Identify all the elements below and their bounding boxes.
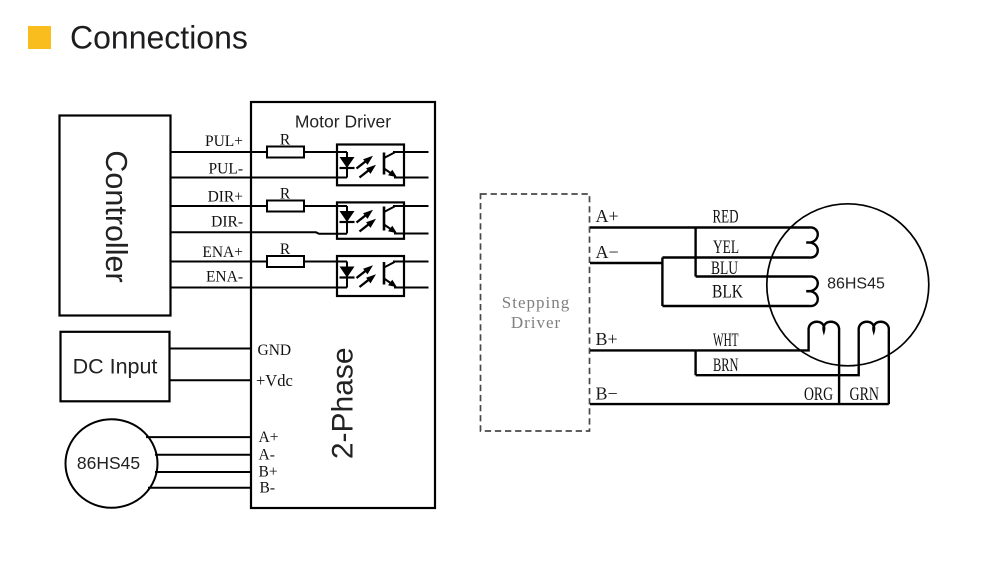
svg-text:DIR+: DIR+ <box>208 189 243 206</box>
svg-text:B−: B− <box>596 384 618 404</box>
controller box <box>60 116 171 316</box>
svg-text:86HS45: 86HS45 <box>77 453 140 473</box>
svg-text:R: R <box>280 132 291 149</box>
optocoupler (PUL) <box>337 145 429 186</box>
svg-text:Stepping: Stepping <box>502 293 570 312</box>
wire B- (left) <box>148 487 251 489</box>
svg-text:R: R <box>280 241 291 258</box>
wire ORG vertical <box>838 331 840 405</box>
svg-text:BRN: BRN <box>713 355 739 376</box>
wire +Vdc <box>170 379 252 381</box>
svg-text:A−: A− <box>596 242 619 262</box>
svg-text:YEL: YEL <box>713 237 739 258</box>
wire GRN vertical <box>888 331 890 405</box>
wire resistor to opto (PUL) <box>304 151 347 153</box>
svg-text:DIR-: DIR- <box>211 213 243 230</box>
svg-text:A+: A+ <box>259 429 279 446</box>
wire DIR+ <box>171 205 268 207</box>
svg-text:Controller: Controller <box>99 150 133 282</box>
svg-text:ENA+: ENA+ <box>202 244 243 261</box>
wire GND <box>170 348 252 350</box>
wire A+ (left) <box>146 436 251 438</box>
svg-text:2-Phase: 2-Phase <box>327 347 360 459</box>
wire A+ / RED <box>590 226 810 228</box>
svg-text:Connections: Connections <box>70 20 248 56</box>
wire DIR- (with jog) <box>171 232 348 234</box>
svg-text:ENA-: ENA- <box>206 268 243 285</box>
wire resistor to opto (DIR) <box>304 205 347 207</box>
svg-text:RED: RED <box>713 206 739 227</box>
wire PUL- <box>171 177 348 179</box>
svg-text:WHT: WHT <box>713 330 739 351</box>
wire ENA+ <box>171 261 268 263</box>
optocoupler (ENA) <box>337 256 429 296</box>
svg-text:DC Input: DC Input <box>73 355 158 379</box>
title bullet square <box>28 26 51 49</box>
svg-text:A-: A- <box>259 447 275 464</box>
wire YEL <box>662 256 809 258</box>
svg-text:B+: B+ <box>259 464 278 481</box>
wire A- <box>590 262 662 264</box>
coil A (RED-YEL) <box>806 227 817 257</box>
optocoupler (DIR) <box>337 202 429 238</box>
junction vertical A+ to BLU <box>694 228 696 277</box>
motor driver box <box>251 102 435 508</box>
svg-text:PUL+: PUL+ <box>205 133 243 150</box>
motor 86HS45 circle (left) <box>66 419 158 508</box>
wire BLU <box>696 275 810 277</box>
dc input box <box>61 332 170 402</box>
wire BLK <box>662 305 809 307</box>
svg-text:+Vdc: +Vdc <box>256 371 293 390</box>
svg-text:86HS45: 86HS45 <box>827 275 885 292</box>
stepping driver dashed box <box>481 194 590 431</box>
svg-text:Motor Driver: Motor Driver <box>295 112 391 132</box>
coil B (BLU-BLK) <box>806 276 817 306</box>
wire resistor to opto (ENA) <box>304 261 347 263</box>
junction vertical YEL to BLK <box>661 258 663 307</box>
svg-text:BLK: BLK <box>712 282 743 303</box>
svg-text:B-: B- <box>260 480 276 497</box>
resistor R (DIR) <box>267 201 304 212</box>
coil C (WHT-ORG) <box>809 322 840 331</box>
svg-text:R: R <box>280 186 291 203</box>
resistor R (PUL) <box>267 147 304 158</box>
2-Phase label <box>327 347 360 459</box>
resistor R (ENA) <box>267 256 304 267</box>
svg-text:A+: A+ <box>596 206 619 226</box>
svg-text:Driver: Driver <box>511 313 561 332</box>
junction vertical B+ to BRN <box>694 350 696 375</box>
motor 86HS45 circle (right) <box>767 204 929 366</box>
wire BRN <box>696 331 859 376</box>
wire B+ (left) <box>155 471 251 473</box>
wire B+ / WHT <box>590 331 809 351</box>
coil D (BRN-GRN) <box>859 322 889 331</box>
wire PUL+ <box>171 151 268 153</box>
wire B- <box>590 403 889 405</box>
svg-text:GND: GND <box>258 342 292 359</box>
wire A- (left) <box>155 454 251 456</box>
controller label <box>99 150 133 282</box>
svg-text:B+: B+ <box>596 329 618 349</box>
svg-text:BLU: BLU <box>711 258 738 279</box>
wire ENA- <box>171 287 348 289</box>
svg-text:GRN: GRN <box>850 384 880 405</box>
svg-text:ORG: ORG <box>804 384 833 405</box>
svg-text:PUL-: PUL- <box>209 161 243 178</box>
